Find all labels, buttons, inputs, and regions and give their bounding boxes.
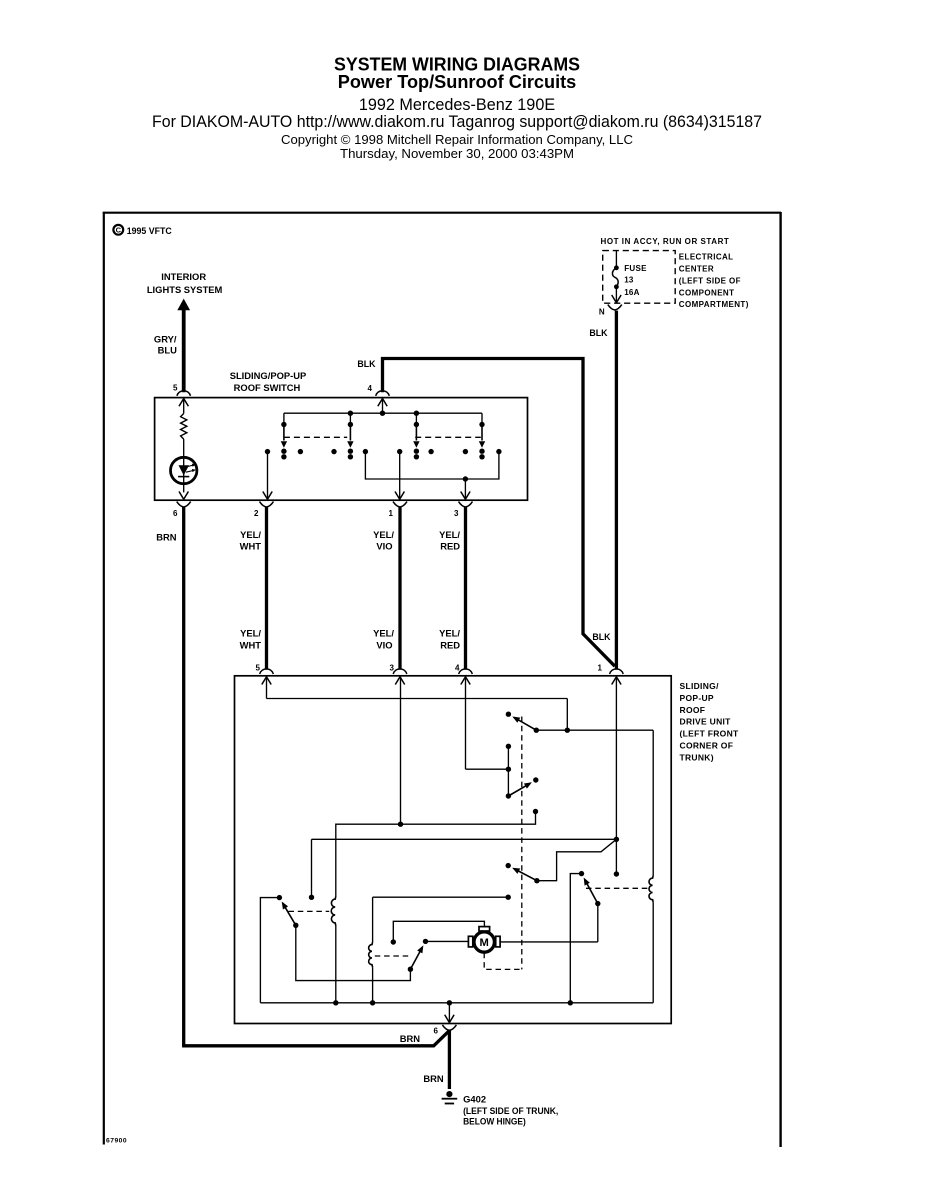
svg-text:COMPONENT: COMPONENT	[679, 288, 735, 297]
svg-text:BLU: BLU	[158, 345, 177, 356]
svg-text:POP-UP: POP-UP	[680, 693, 714, 703]
svg-text:DRIVE UNIT: DRIVE UNIT	[680, 717, 732, 727]
svg-text:(LEFT FRONT: (LEFT FRONT	[680, 729, 740, 739]
svg-text:5: 5	[256, 664, 261, 673]
svg-text:67900: 67900	[106, 1138, 127, 1145]
svg-text:N: N	[599, 307, 605, 316]
svg-text:ELECTRICAL: ELECTRICAL	[679, 253, 734, 262]
svg-text:YEL/: YEL/	[439, 529, 460, 540]
svg-text:(LEFT SIDE OF: (LEFT SIDE OF	[679, 276, 741, 285]
svg-text:SLIDING/POP-UP: SLIDING/POP-UP	[230, 370, 307, 381]
svg-text:4: 4	[455, 664, 460, 673]
svg-text:3: 3	[454, 509, 459, 518]
svg-text:5: 5	[173, 384, 178, 393]
svg-text:VIO: VIO	[376, 541, 392, 552]
svg-text:4: 4	[368, 384, 373, 393]
svg-text:Copyright © 1998 Mitchell Repa: Copyright © 1998 Mitchell Repair Informa…	[281, 132, 633, 147]
svg-text:FUSE: FUSE	[624, 264, 647, 273]
svg-text:3: 3	[390, 664, 395, 673]
svg-text:YEL/: YEL/	[373, 628, 394, 639]
svg-text:BRN: BRN	[156, 532, 177, 543]
svg-text:SLIDING/: SLIDING/	[680, 681, 720, 691]
svg-text:WHT: WHT	[240, 639, 262, 650]
svg-text:YEL/: YEL/	[240, 529, 261, 540]
svg-text:1995 VFTC: 1995 VFTC	[127, 226, 173, 236]
svg-text:G402: G402	[463, 1094, 486, 1105]
svg-text:BRN: BRN	[400, 1033, 421, 1044]
svg-text:RED: RED	[440, 541, 460, 552]
svg-text:YEL/: YEL/	[240, 628, 261, 639]
svg-text:CORNER OF: CORNER OF	[680, 741, 734, 751]
svg-text:BRN: BRN	[423, 1073, 444, 1084]
svg-text:Thursday, November 30, 2000 0: Thursday, November 30, 2000 03:43PM	[340, 146, 574, 161]
svg-text:BELOW HINGE): BELOW HINGE)	[463, 1116, 526, 1127]
svg-text:C: C	[116, 226, 122, 235]
svg-text:TRUNK): TRUNK)	[680, 752, 714, 762]
svg-text:1: 1	[598, 664, 603, 673]
svg-text:RED: RED	[440, 639, 460, 650]
svg-text:GRY/: GRY/	[154, 333, 177, 344]
svg-text:16A: 16A	[624, 288, 640, 297]
svg-text:13: 13	[624, 276, 634, 285]
svg-text:BLK: BLK	[592, 632, 611, 642]
svg-text:COMPARTMENT): COMPARTMENT)	[679, 300, 749, 309]
svg-text:1: 1	[389, 509, 394, 518]
svg-text:LIGHTS SYSTEM: LIGHTS SYSTEM	[147, 284, 223, 295]
svg-text:ROOF: ROOF	[680, 705, 706, 715]
svg-text:2: 2	[254, 509, 259, 518]
svg-text:CENTER: CENTER	[679, 265, 714, 274]
svg-text:HOT IN ACCY, RUN OR START: HOT IN ACCY, RUN OR START	[601, 237, 730, 246]
svg-text:INTERIOR: INTERIOR	[161, 271, 206, 282]
svg-text:YEL/: YEL/	[439, 628, 460, 639]
svg-text:ROOF SWITCH: ROOF SWITCH	[234, 382, 301, 393]
svg-text:BLK: BLK	[589, 328, 608, 338]
svg-text:6: 6	[434, 1027, 439, 1036]
svg-text:Power Top/Sunroof Circuits: Power Top/Sunroof Circuits	[338, 72, 577, 92]
svg-text:6: 6	[173, 509, 178, 518]
svg-text:M: M	[480, 937, 489, 949]
svg-text:For DIAKOM-AUTO http://www.dia: For DIAKOM-AUTO http://www.diakom.ru Tag…	[152, 112, 762, 131]
svg-text:BLK: BLK	[357, 359, 376, 369]
svg-text:YEL/: YEL/	[373, 529, 394, 540]
svg-text:(LEFT SIDE OF TRUNK,: (LEFT SIDE OF TRUNK,	[463, 1105, 558, 1116]
svg-text:VIO: VIO	[376, 639, 392, 650]
svg-text:WHT: WHT	[240, 541, 262, 552]
